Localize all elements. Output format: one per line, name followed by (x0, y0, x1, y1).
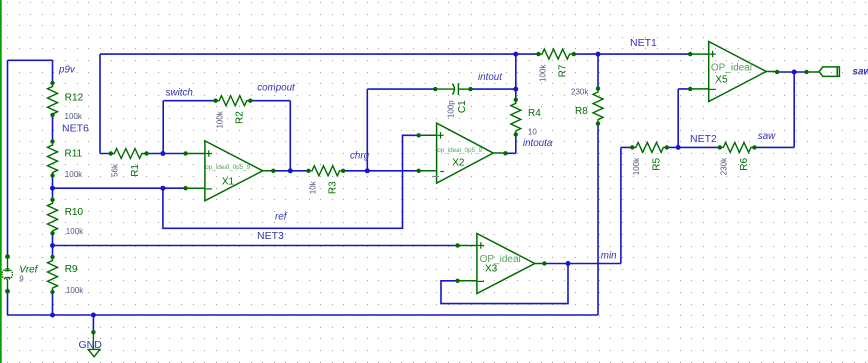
svg-text:230k: 230k (571, 88, 589, 97)
junction node NET2 (676, 145, 681, 150)
svg-text:op_ideal_0p5_9: op_ideal_0p5_9 (437, 147, 482, 154)
pin dots R10 (50, 198, 54, 202)
svg-text:min: min (601, 250, 617, 261)
svg-text:9: 9 (19, 275, 24, 284)
pin dots R11 (50, 139, 54, 143)
resistor R6 (720, 142, 755, 152)
pin dots R9 (50, 255, 54, 259)
pin dots R5 (630, 145, 634, 149)
wire X5 out saw (777, 71, 806, 73)
pin dot port saw (804, 70, 808, 74)
svg-text:230k: 230k (720, 157, 729, 175)
svg-text:X3: X3 (485, 263, 498, 274)
capacitor C1 (435, 83, 470, 95)
wire GND stub (92, 315, 94, 332)
resistor R12 (48, 83, 58, 118)
svg-text:X1: X1 (222, 177, 235, 188)
junction node intout (513, 87, 518, 92)
wire X1 out row (273, 170, 418, 172)
op-amp X2 gray stub (432, 176, 439, 178)
svg-text:NET2: NET2 (690, 133, 717, 145)
op-amp X3 (458, 234, 545, 294)
op-amp X1 (186, 141, 274, 201)
svg-text:R6: R6 (739, 157, 750, 170)
pin dots X2 (417, 133, 421, 137)
svg-text:GND: GND (79, 339, 103, 351)
svg-text:10: 10 (528, 128, 537, 137)
svg-text:R9: R9 (65, 264, 78, 275)
svg-text:100k: 100k (632, 157, 641, 175)
svg-text:100k: 100k (215, 110, 224, 128)
svg-text:R10: R10 (65, 207, 84, 218)
wire bottom rail (8, 314, 599, 316)
wire X3 feedback (441, 264, 568, 304)
resistor R10 (48, 200, 58, 235)
svg-text:switch: switch (166, 88, 193, 99)
pin dots X1 (183, 151, 187, 155)
voltage source Vref (2, 257, 13, 292)
junction ground rail (91, 313, 96, 318)
wire R8 top (597, 54, 599, 89)
svg-text:100k: 100k (65, 170, 83, 179)
resistor R4 (511, 100, 521, 135)
svg-text:intouta: intouta (523, 138, 553, 149)
svg-text:OP_ideal: OP_ideal (711, 62, 752, 73)
resistor R3 (309, 166, 344, 176)
junction node chrg (365, 168, 370, 173)
svg-text:op_ideal_0p5_9: op_ideal_0p5_9 (205, 164, 250, 171)
junction node compout (288, 168, 293, 173)
wire switch (163, 101, 215, 154)
wire NET2 row (621, 72, 794, 147)
wire minus row NET6a (53, 187, 186, 189)
junction node NET1 top (513, 52, 518, 57)
junction divider bottom (50, 313, 55, 318)
svg-text:R2: R2 (235, 111, 246, 124)
wire left rail upper (7, 60, 9, 256)
svg-text:100k: 100k (66, 286, 84, 295)
svg-text:R5: R5 (651, 157, 662, 170)
svg-text:100p: 100p (447, 100, 456, 118)
wire plus row (147, 153, 186, 155)
junction NET1 at R8 (596, 52, 601, 57)
op-amp X5 (690, 42, 777, 102)
wire intout row (367, 88, 516, 90)
svg-text:R3: R3 (328, 181, 339, 194)
wire chrg vertical (366, 89, 368, 171)
svg-text:R7: R7 (558, 64, 569, 77)
wire chain segments (52, 60, 54, 315)
op-amp X2 (419, 123, 506, 183)
svg-text:R12: R12 (65, 93, 84, 104)
svg-text:X5: X5 (715, 74, 728, 85)
wire R8 bottom to rail (597, 124, 599, 315)
svg-text:C1: C1 (457, 100, 468, 113)
resistor R2 (216, 96, 251, 106)
svg-text:R4: R4 (528, 108, 541, 119)
svg-text:R8: R8 (575, 106, 588, 117)
svg-text:56k: 56k (111, 163, 120, 177)
wire top feedback down-left (100, 54, 111, 153)
resistor R5 (632, 142, 667, 152)
schematic left border (0, 0, 2, 363)
wire left rail lower (7, 291, 9, 315)
svg-text:R11: R11 (65, 149, 83, 160)
svg-text:NET3: NET3 (257, 230, 284, 242)
wire X3 out to min (544, 147, 621, 263)
resistor R7 (539, 49, 574, 59)
resistor R8 (593, 89, 603, 124)
junction node min (566, 261, 571, 266)
pin dots R12 (50, 81, 54, 85)
output port saw (807, 67, 840, 77)
junction node ref at X1 minus (160, 186, 165, 191)
pin dots R2 (213, 99, 217, 103)
pin dots Vref (5, 254, 10, 259)
wire compout (250, 101, 290, 171)
wire X5 minus (678, 89, 690, 147)
resistor R1 (111, 149, 146, 159)
pin dots R7 (536, 52, 540, 56)
svg-text:100k: 100k (65, 112, 83, 121)
svg-text:compout: compout (257, 83, 296, 94)
ground symbol (88, 332, 100, 357)
junction divider R11-R10 (50, 186, 55, 191)
svg-text:ref: ref (275, 212, 288, 223)
resistor R11 (48, 142, 58, 177)
resistors green bodies (48, 49, 755, 292)
resistor R9 (48, 257, 58, 292)
svg-text:NET6: NET6 (62, 123, 89, 135)
svg-text:intout: intout (478, 72, 503, 83)
pin dot ground (91, 330, 95, 334)
wire ref (163, 135, 419, 228)
pin dots R3 (306, 169, 310, 173)
svg-text:p9v: p9v (58, 65, 76, 76)
pin dots C1 (433, 87, 437, 91)
svg-text:100k: 100k (66, 227, 84, 236)
junction node NET3 (50, 243, 55, 248)
wire intout vertical (515, 54, 517, 100)
svg-text:saw: saw (758, 131, 776, 142)
wire top NET1 (100, 53, 690, 55)
svg-text:chrg: chrg (350, 151, 370, 162)
pin dots R1 (109, 151, 113, 155)
wire p9v top (8, 59, 53, 61)
pin dots R4 (514, 98, 518, 102)
svg-text:R1: R1 (130, 164, 141, 177)
wire NET3 (53, 245, 458, 247)
svg-text:NET1: NET1 (630, 37, 657, 49)
pin dots X3 (455, 243, 459, 247)
svg-text:saw: saw (853, 67, 868, 78)
wire X2 out (506, 134, 516, 153)
pin dots X5 (688, 52, 692, 56)
junction node switch (160, 151, 165, 156)
svg-text:X2: X2 (452, 158, 465, 169)
svg-text:100k: 100k (538, 64, 547, 82)
svg-text:10k: 10k (308, 180, 317, 194)
junction node saw (792, 70, 797, 75)
pin dots R6 (718, 145, 722, 149)
pin dots R8 (596, 86, 600, 90)
